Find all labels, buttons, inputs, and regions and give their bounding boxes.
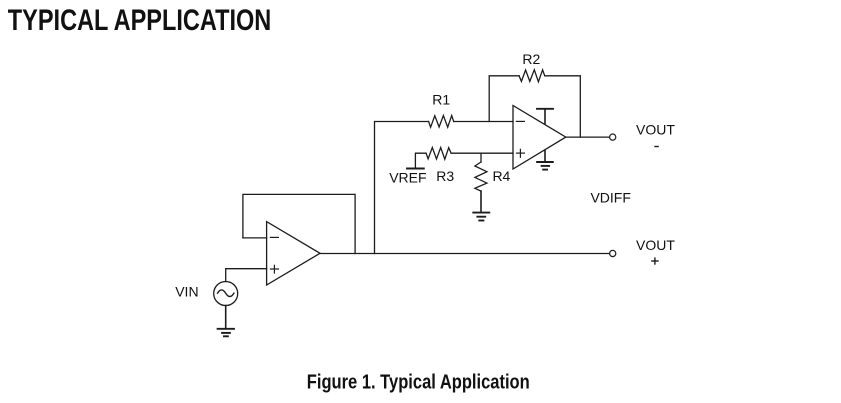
svg-text:TYPICAL APPLICATION: TYPICAL APPLICATION [8, 4, 272, 37]
svg-text:R1: R1 [432, 91, 450, 107]
svg-text:VREF: VREF [389, 170, 426, 186]
svg-text:R2: R2 [522, 51, 540, 67]
svg-text:VOUT: VOUT [636, 121, 675, 137]
svg-text:VIN: VIN [175, 283, 198, 299]
svg-text:R4: R4 [492, 168, 510, 184]
svg-text:VDIFF: VDIFF [590, 189, 630, 205]
svg-text:R3: R3 [436, 168, 454, 184]
svg-text:VOUT: VOUT [636, 237, 675, 253]
svg-text:Figure 1. Typical Application: Figure 1. Typical Application [307, 371, 530, 393]
